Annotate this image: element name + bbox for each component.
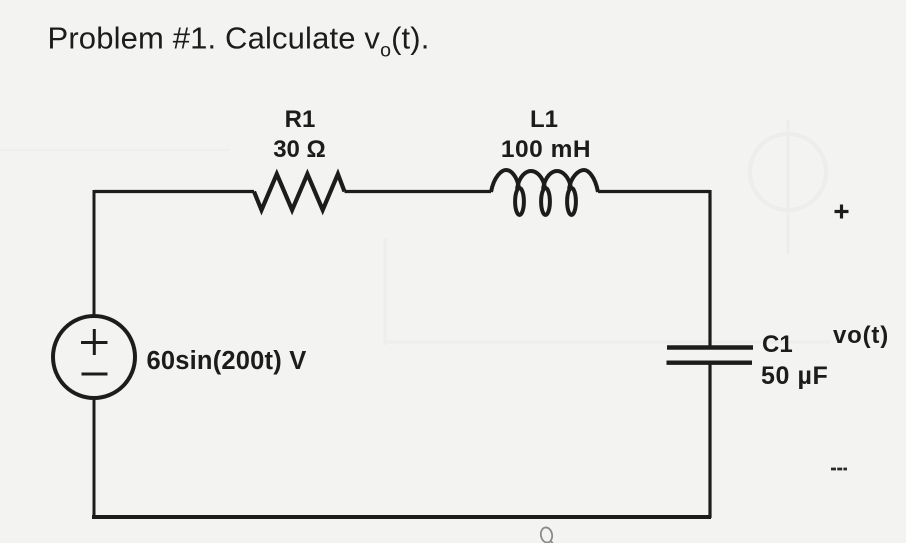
svg-text:Problem #1. Calculate vo(t).: Problem #1. Calculate vo(t). [48, 21, 430, 62]
node vo(t) label [833, 322, 889, 349]
stray pencil mark Q at bottom [540, 527, 554, 543]
svg-text:vo(t): vo(t) [833, 322, 889, 349]
ghost bleed-through lines [0, 150, 830, 345]
wire inductor to top-right corner [598, 190, 710, 193]
wire left vertical (source to bottom corner) [93, 398, 96, 517]
inductor L1 coil [491, 170, 598, 215]
capacitor C1 plates [667, 348, 754, 363]
svg-text:100 mH: 100 mH [501, 136, 591, 163]
ghost bleed-through circle [750, 120, 826, 255]
resistor R1 zigzag [254, 174, 345, 210]
node plus (output polarity +) [835, 205, 849, 219]
svg-text:L1: L1 [530, 106, 558, 133]
svg-text:60sin(200t) V: 60sin(200t) V [147, 347, 307, 375]
svg-text:R1: R1 [285, 106, 316, 133]
wire right vertical (corner to capacitor) [708, 190, 711, 347]
inductor L1 label [501, 106, 591, 163]
voltage source V1 value label [147, 347, 307, 375]
capacitor C1 label [761, 331, 828, 390]
wire left vertical (top part, corner to source) [93, 190, 96, 316]
voltage source V1 plus sign [81, 329, 108, 355]
resistor R1 label [273, 106, 326, 163]
svg-text:50 µF: 50 µF [761, 362, 828, 390]
voltage source V1 minus sign [82, 373, 108, 376]
wire bottom [92, 515, 711, 519]
wire top-left from corner to resistor [94, 190, 254, 193]
svg-text:C1: C1 [762, 331, 793, 358]
title text [48, 21, 430, 62]
wire right vertical (capacitor to bottom corner) [708, 363, 711, 518]
svg-text:30 Ω: 30 Ω [273, 136, 326, 163]
wire between resistor and inductor [345, 190, 492, 193]
node minus (output polarity -) [831, 468, 847, 471]
voltage source V1 circle [53, 316, 135, 398]
